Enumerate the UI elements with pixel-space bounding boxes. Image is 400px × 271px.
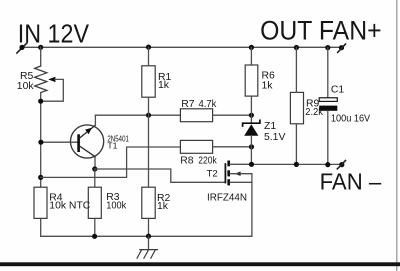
node FAN- terminal tick xyxy=(337,161,345,169)
wire bottom rail xyxy=(41,235,252,237)
node R9 top dot xyxy=(294,45,299,50)
svg-text:IN 12V: IN 12V xyxy=(18,20,89,48)
node R1 top dot xyxy=(146,45,151,50)
svg-text:100u 16V: 100u 16V xyxy=(331,113,370,124)
node IN dot xyxy=(19,45,24,50)
ground stem xyxy=(148,236,150,249)
node R3 bottom dot xyxy=(92,234,97,239)
zener Z1 cathode bar xyxy=(243,120,260,126)
svg-text:T2: T2 xyxy=(207,168,218,179)
node C1 top dot xyxy=(325,45,330,50)
ground hatch 2 xyxy=(144,250,149,258)
node FAN- terminal dot xyxy=(339,162,344,167)
svg-text:FAN –: FAN – xyxy=(320,169,382,195)
capacitor C1 top lead xyxy=(327,47,329,98)
border right edge xyxy=(396,0,398,271)
wire T1 emitter up xyxy=(94,115,96,125)
potentiometer R5 zigzag xyxy=(35,66,47,93)
transistor T1 collector diagonal xyxy=(80,146,95,156)
wire R4 bottom lead xyxy=(40,218,42,236)
wire left rail below R5 xyxy=(40,93,42,188)
node R5 top dot xyxy=(38,45,43,50)
svg-text:220k: 220k xyxy=(198,156,217,167)
svg-text:T1: T1 xyxy=(107,141,117,151)
wire left rail upper xyxy=(40,47,42,66)
wire R9 bottom lead xyxy=(295,124,297,165)
border bottom black bar xyxy=(0,262,400,266)
svg-text:10k NTC: 10k NTC xyxy=(49,200,90,211)
wire R8 right lead xyxy=(213,146,252,148)
node IN terminal tick xyxy=(17,43,27,53)
wire Z1 anode down xyxy=(250,136,252,165)
mosfet T2 body arrow xyxy=(235,172,241,176)
node Z1/T2 drain dot xyxy=(249,162,254,167)
svg-text:5.1V: 5.1V xyxy=(264,132,285,143)
svg-text:C1: C1 xyxy=(331,85,345,96)
node R9 bottom dot xyxy=(294,162,299,167)
svg-text:R8: R8 xyxy=(180,156,194,167)
mosfet T2 channel bar top xyxy=(227,161,230,167)
wire top 12V rail xyxy=(22,46,342,48)
svg-text:R7: R7 xyxy=(181,99,195,110)
wire T1 base xyxy=(41,141,78,143)
ground bar xyxy=(140,249,158,251)
node OUT terminal dot xyxy=(339,45,344,50)
wire R2 bottom lead xyxy=(148,218,150,236)
wire T2 bulk lead xyxy=(230,181,252,183)
ground hatch 1 xyxy=(137,250,142,258)
svg-text:10k: 10k xyxy=(17,81,35,92)
wire R1 top lead xyxy=(148,47,150,66)
svg-text:100k: 100k xyxy=(106,200,127,211)
node emitter row dot xyxy=(146,113,151,118)
transistor T1 base bar xyxy=(77,134,80,152)
resistor R6 body xyxy=(245,65,258,96)
svg-text:2.2k: 2.2k xyxy=(305,107,323,118)
svg-text:OUT FAN+: OUT FAN+ xyxy=(260,16,382,46)
wire T2 source down xyxy=(251,174,253,237)
svg-text:IRFZ44N: IRFZ44N xyxy=(207,193,247,204)
resistor R4 body xyxy=(34,187,47,218)
resistor R2 body xyxy=(142,187,155,218)
wire FAN- rail xyxy=(252,163,342,165)
node R6 top dot xyxy=(249,45,254,50)
wire collector to R3 xyxy=(94,169,96,187)
wire T1 collector down xyxy=(94,157,96,169)
capacitor C1 bottom plate xyxy=(319,106,337,111)
wire R9 top lead xyxy=(295,47,297,92)
wire R3 bottom lead xyxy=(94,218,96,236)
mosfet T2 channel bar bottom xyxy=(227,179,230,185)
mosfet T2 channel bar middle xyxy=(227,170,230,176)
node R2 bottom dot xyxy=(146,234,151,239)
transistor T1 emitter diagonal xyxy=(80,125,96,138)
potentiometer R5 wiper arrow xyxy=(48,77,55,82)
wire R8 left to rail xyxy=(41,147,181,177)
resistor R1 body xyxy=(142,66,155,97)
node base dot xyxy=(38,140,43,145)
wire emitter row to R7 xyxy=(95,114,180,116)
wire T2 source lead xyxy=(230,173,252,175)
potentiometer R5 wiper wire xyxy=(41,79,64,101)
wire T2 drain lead xyxy=(230,163,252,165)
wire R1 bottom lead / column to R2 xyxy=(148,97,150,187)
wire R6 bottom to Z1 xyxy=(250,96,252,123)
wire R6 top lead xyxy=(250,47,252,65)
node NTC row dot xyxy=(38,175,43,180)
resistor R9 body xyxy=(290,92,303,123)
transistor Q1 T1 circle xyxy=(71,125,104,158)
node collector dot xyxy=(92,166,97,171)
node C1 bottom dot xyxy=(325,162,330,167)
resistor R8 body xyxy=(180,140,212,153)
svg-text:Z1: Z1 xyxy=(264,121,276,132)
wire R7 right lead xyxy=(213,114,252,116)
node R8-Z1 dot xyxy=(249,144,254,149)
svg-text:R5: R5 xyxy=(20,71,34,82)
capacitor C1 bottom lead xyxy=(327,111,329,165)
node OUT terminal tick xyxy=(338,44,346,52)
node R5 bottom dot xyxy=(38,99,43,104)
mosfet T2 gate bar xyxy=(224,164,226,182)
svg-text:4.7k: 4.7k xyxy=(199,99,218,110)
svg-text:1k: 1k xyxy=(158,80,170,91)
transistor T1 emitter arrow xyxy=(85,128,92,135)
svg-text:1k: 1k xyxy=(262,81,274,92)
node R7-Z1 dot xyxy=(249,113,254,118)
resistor R3 body xyxy=(88,187,101,218)
capacitor C1 top plate xyxy=(319,98,337,102)
wire collector to gate xyxy=(95,169,225,182)
resistor R7 body xyxy=(180,109,212,122)
ground hatch 3 xyxy=(151,250,156,258)
svg-text:1k: 1k xyxy=(157,201,169,212)
zener Z1 triangle xyxy=(244,124,258,135)
